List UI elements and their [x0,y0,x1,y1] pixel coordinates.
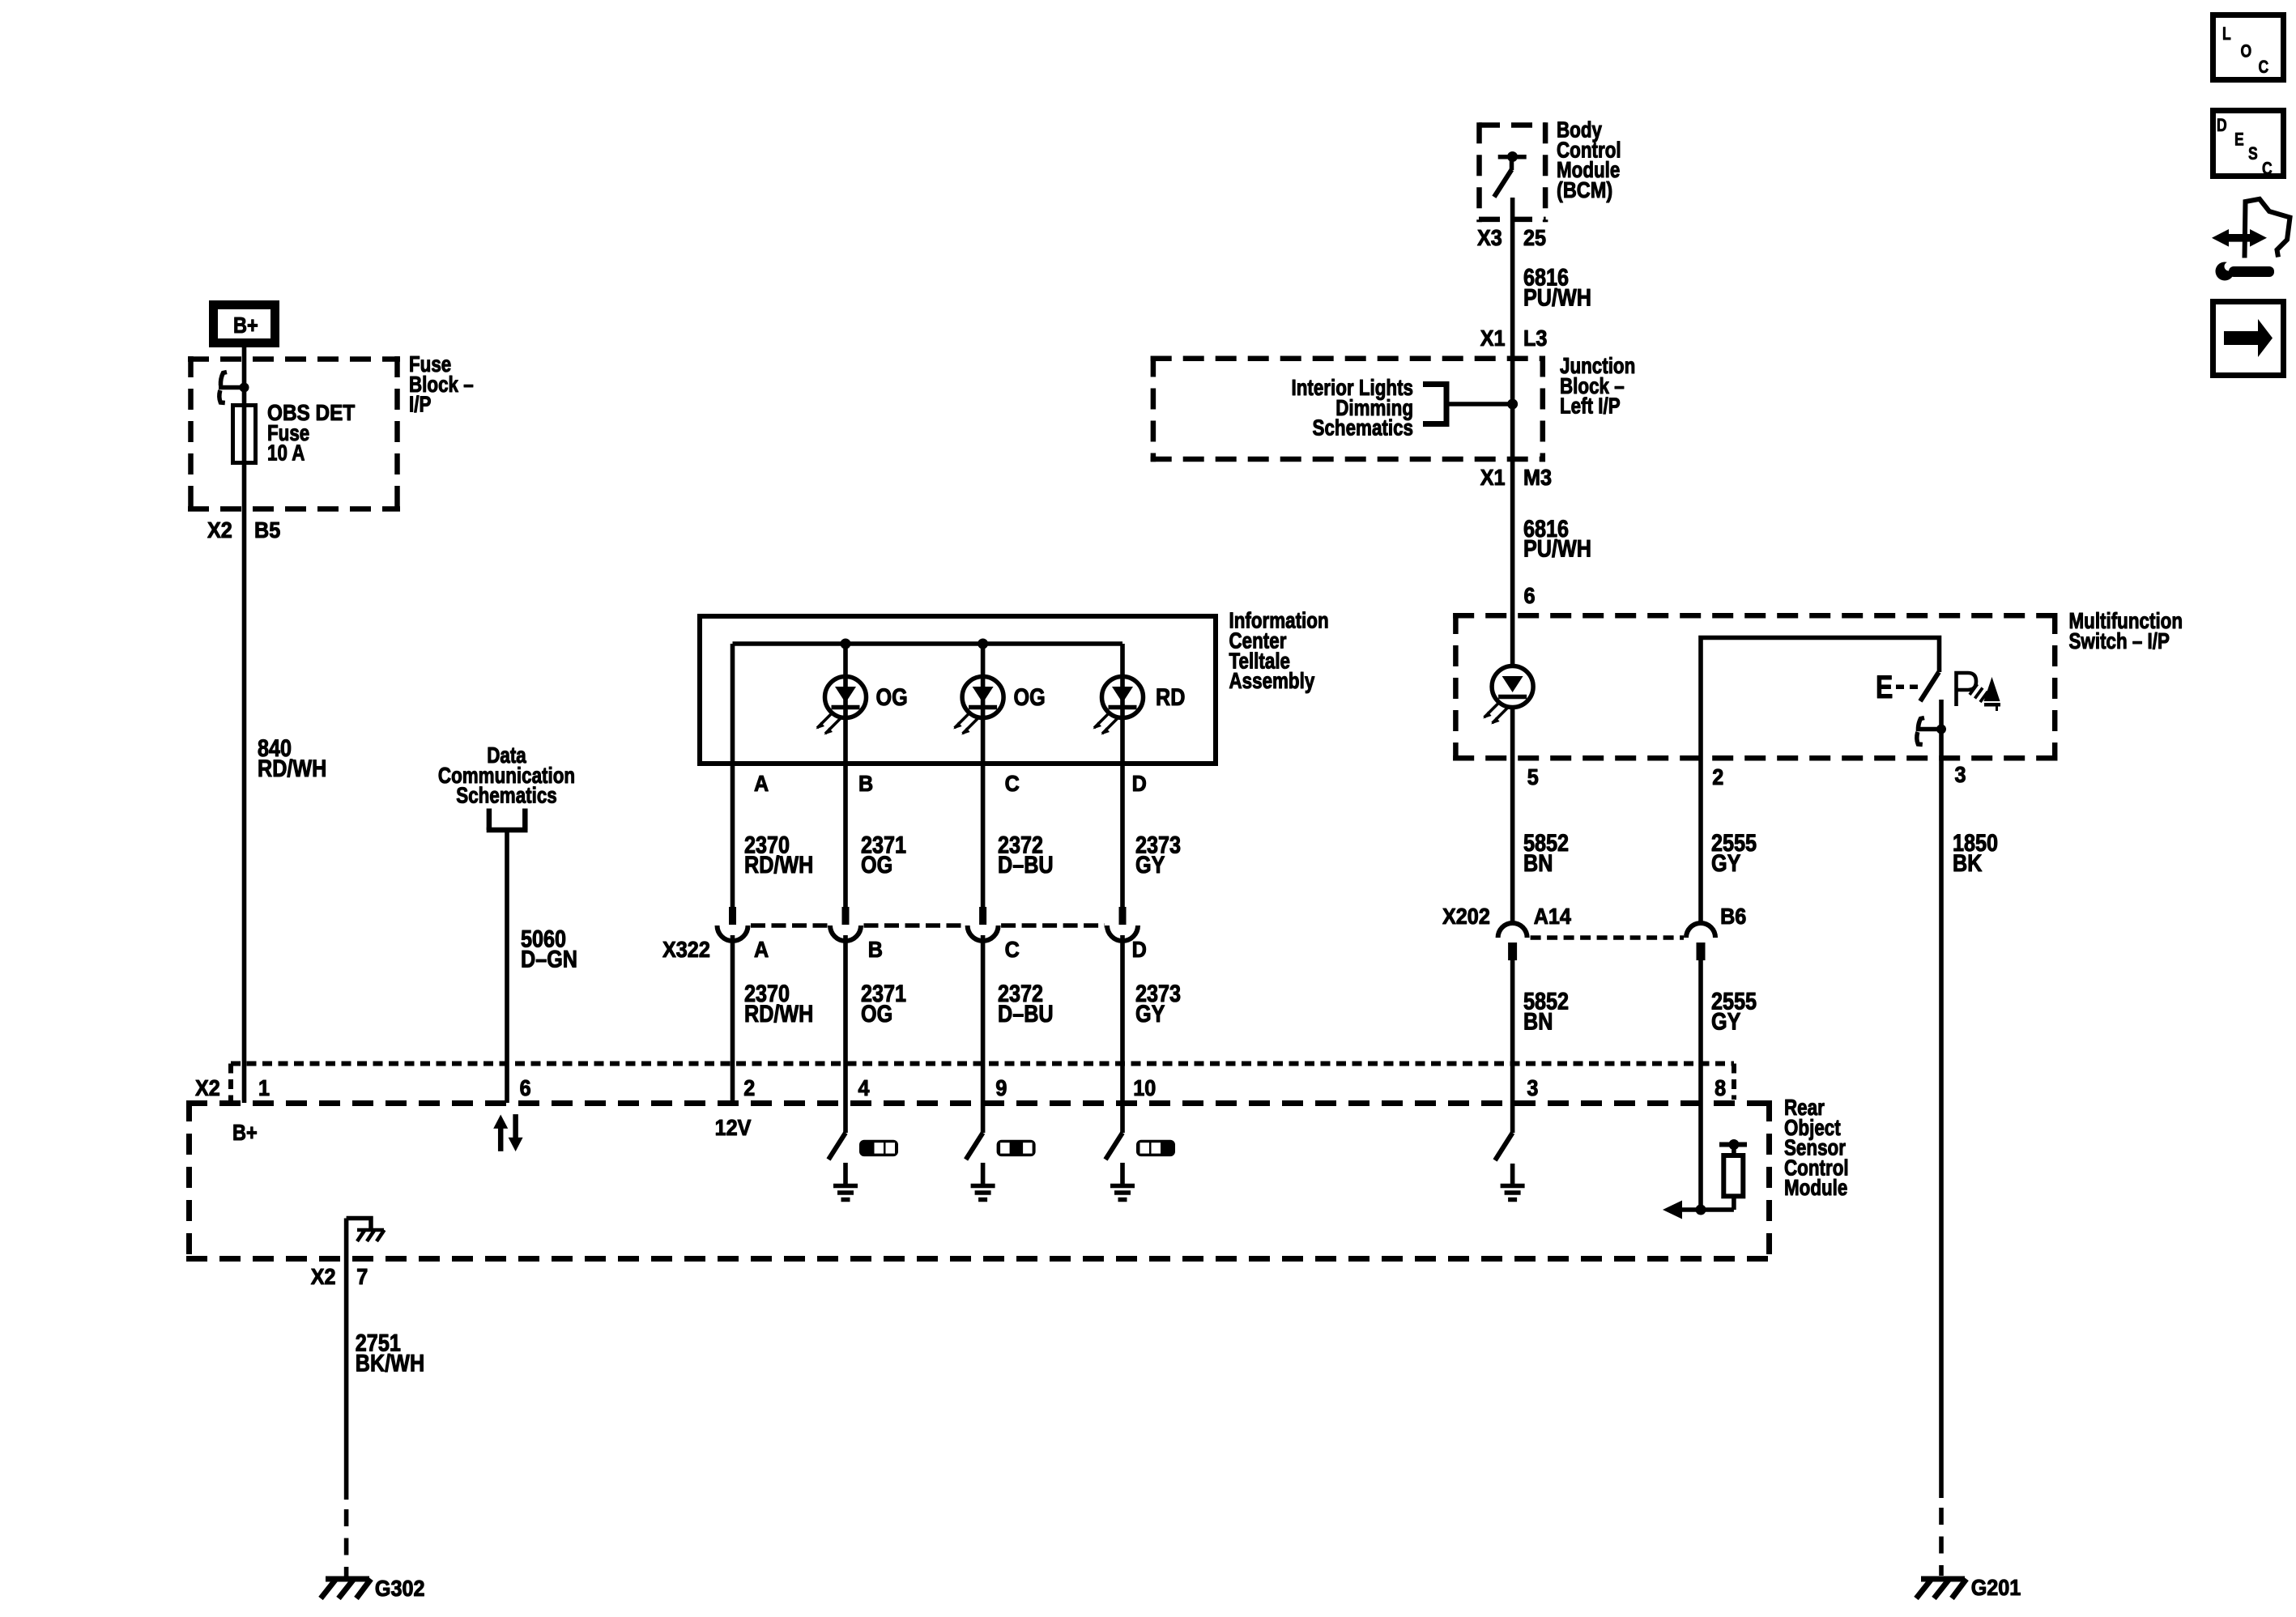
svg-text:C: C [2259,57,2269,77]
wire C to module [981,935,986,1103]
wire label 6816 PU/WH upper [1523,264,1591,311]
svg-text:S: S [2248,144,2258,164]
svg-text:RD: RD [1156,683,1185,711]
fuse OBS DET 10A [233,399,356,466]
svg-text:RD/WH: RD/WH [744,1000,813,1028]
svg-text:A: A [754,771,769,797]
wire 2751 BK/WH [311,1259,424,1577]
svg-text:X202: X202 [1442,904,1490,930]
interior lights dimming schematics reference [1291,376,1446,441]
wire 1850 BK from switch [1939,700,1944,1498]
svg-text:10: 10 [1133,1075,1156,1101]
fuse clip contact [219,372,249,403]
wire dimming tap [1446,402,1513,406]
BCM label [1557,117,1621,202]
output switch pin 3 to ground [1495,1103,1525,1200]
telltale internal bus [733,641,1123,646]
svg-text:Left I/P: Left I/P [1560,394,1621,419]
wire label 5852 BN lower [1523,987,1569,1034]
svg-text:GY: GY [1711,1007,1741,1035]
svg-text:A14: A14 [1534,904,1571,930]
LED indicator multifunction [1483,666,1533,725]
svg-text:Module: Module [1784,1176,1847,1201]
svg-text:PU/WH: PU/WH [1523,535,1591,563]
icon arrow box [2213,302,2284,376]
svg-text:E: E [2234,130,2244,150]
wire labels 2372 D-BU upper [998,831,1054,878]
svg-text:A: A [754,937,769,963]
svg-text:D–BU: D–BU [998,851,1054,879]
wire 840 RD/WH fuse to module [207,403,326,1103]
output switch pin 9 with lamp [966,1103,1036,1200]
svg-text:GY: GY [1135,851,1165,879]
connector X202 row [1442,904,1746,960]
svg-text:(BCM): (BCM) [1557,178,1612,202]
wire BCM out [1510,198,1515,356]
ground G201 [1916,1575,2021,1601]
junction block left I/P dashed box [1151,356,1545,462]
rear object sensor control module dashed box [186,1100,1772,1262]
wire labels 2370 RD/WH upper [744,831,813,878]
B+ battery terminal box [214,305,275,343]
icon LOC box top right [2213,15,2284,80]
svg-text:4: 4 [858,1075,870,1101]
wire LED to pin 5 [1510,708,1515,923]
fuse block I/P dashed box [188,356,400,512]
information center telltale assembly box [700,608,1329,764]
svg-text:Schematics: Schematics [456,783,556,808]
svg-text:BN: BN [1523,1007,1553,1035]
svg-text:X2: X2 [195,1075,220,1101]
BCM dashed box [1479,122,1546,222]
output switch pin 10 with lamp [1105,1103,1175,1200]
multifunction pin labels 5 2 3 [1527,762,1966,790]
svg-text:BK/WH: BK/WH [356,1349,424,1377]
svg-text:9: 9 [995,1075,1007,1101]
fuse block label [409,352,474,418]
wire labels 2370 RD/WH lower [744,980,813,1027]
svg-text:BK: BK [1953,849,1982,877]
LED indicator B OG [816,677,908,735]
wire BN to module [1510,960,1515,1103]
wire labels 2372 D-BU lower [998,980,1054,1027]
wire switch top feed [1701,638,1940,760]
svg-text:PU/WH: PU/WH [1523,283,1591,311]
svg-text:D–GN: D–GN [521,945,577,972]
wire 5060 D-GN [507,832,577,1103]
svg-text:2: 2 [1712,764,1723,790]
BCM internal switch [1494,151,1527,197]
svg-text:5: 5 [1527,764,1539,790]
multifunction switch label [2069,609,2183,654]
svg-text:B+: B+ [233,313,258,338]
svg-text:2: 2 [743,1075,755,1101]
svg-text:B: B [858,771,873,797]
connector X2 fine dashed line [231,1064,1734,1104]
svg-text:12V: 12V [715,1115,752,1141]
svg-text:Schematics: Schematics [1313,415,1413,440]
data arrows at pin 6 [493,1114,522,1151]
junction block pin labels X1 L3 [1480,326,1548,351]
node bus-B [841,639,851,649]
svg-text:D: D [2217,116,2227,135]
multifunction switch I/P dashed box [1453,613,2057,761]
wire A to module [731,935,735,1103]
svg-text:D–BU: D–BU [998,1000,1054,1028]
node bus-C [978,639,988,649]
svg-text:B5: B5 [254,517,280,543]
svg-text:25: 25 [1523,225,1546,251]
svg-text:B: B [868,937,883,963]
svg-text:D: D [1132,771,1147,797]
svg-text:L3: L3 [1523,326,1547,351]
svg-text:X3: X3 [1477,225,1502,251]
wire GY to module [1698,960,1703,1103]
park assist icon P with waves and cone [1957,673,2001,711]
wire A inside telltale [731,644,735,911]
BCM pin labels X3 25 [1477,225,1546,251]
svg-text:D: D [1132,937,1147,963]
module internal ground flag [347,1219,385,1260]
switch blade [1920,672,1939,701]
wire B to module [843,935,848,1103]
svg-text:G302: G302 [375,1576,425,1602]
svg-text:OG: OG [861,851,892,879]
svg-text:B6: B6 [1720,904,1746,930]
svg-text:C: C [2262,160,2273,179]
svg-text:G201: G201 [1971,1575,2021,1601]
wire labels 2373 GY lower [1135,980,1181,1027]
wire labels 2371 OG lower [861,980,906,1027]
svg-text:6: 6 [520,1075,531,1101]
node junction tap [1507,399,1518,410]
svg-text:OG: OG [861,1000,892,1028]
svg-text:OG: OG [1014,683,1046,711]
wire GY box to connector [1698,760,1703,924]
svg-text:X2: X2 [207,517,232,543]
svg-text:8: 8 [1715,1075,1726,1101]
wire 1850 dashed to ground [1939,1508,1944,1576]
switch E dashed actuator [1876,669,1921,705]
svg-text:M3: M3 [1523,465,1552,491]
output switch pin 4 with lamp [829,1103,898,1200]
svg-text:X2: X2 [311,1264,336,1290]
sensor resistor circuit pin 8 [1663,1103,1747,1219]
wire label 6816 PU/WH lower [1523,515,1591,562]
svg-text:X322: X322 [662,937,710,963]
switch clip contact on wire 3 [1916,718,1946,745]
module pin number row [195,1075,1726,1101]
svg-text:X1: X1 [1480,465,1506,491]
LED indicator D RD [1093,677,1186,735]
icon DESC box [2213,111,2284,180]
svg-text:3: 3 [1527,1075,1538,1101]
svg-text:RD/WH: RD/WH [744,851,813,879]
svg-text:I/P: I/P [409,392,431,417]
LED indicator C OG [953,677,1046,735]
svg-text:3: 3 [1955,762,1966,788]
svg-text:Switch – I/P: Switch – I/P [2069,629,2170,654]
svg-text:C: C [1005,937,1020,963]
wire label 5852 BN upper [1523,829,1569,877]
junction pin labels X1 M3 [1480,465,1552,491]
svg-text:GY: GY [1135,1000,1165,1028]
wire label 1850 BK [1953,829,1998,877]
svg-text:BN: BN [1523,849,1553,877]
telltale pin labels A B C D [754,771,1147,797]
svg-text:7: 7 [356,1264,368,1290]
wire junction block through [1510,356,1515,666]
svg-text:Assembly: Assembly [1229,669,1315,694]
wire label 2555 GY lower [1711,987,1757,1034]
svg-text:GY: GY [1711,849,1741,877]
wire D to module [1120,935,1125,1103]
svg-text:RD/WH: RD/WH [258,755,326,782]
wire B inside telltale [843,644,848,911]
svg-text:10 A: 10 A [267,440,305,466]
junction block label [1560,354,1635,419]
svg-text:O: O [2241,42,2252,62]
svg-text:C: C [1005,771,1020,797]
wire label 2555 GY upper [1711,829,1757,877]
wire labels 2373 GY upper [1135,831,1181,878]
svg-text:E: E [1876,669,1893,705]
svg-text:1: 1 [258,1075,270,1101]
icon hand with double arrow and wrench [2212,199,2290,281]
wire C inside telltale [981,644,986,911]
wire B+ to fuse [242,347,247,403]
svg-text:B+: B+ [232,1121,258,1145]
rear object sensor control module label [1784,1096,1849,1201]
connector X322 row [662,907,1147,962]
svg-text:OG: OG [876,683,908,711]
data communication schematics off-page bracket [438,743,575,830]
svg-text:X1: X1 [1480,326,1506,351]
wire D inside telltale [1120,644,1125,911]
svg-text:6: 6 [1524,583,1536,609]
ground G302 [321,1576,425,1602]
svg-text:L: L [2222,24,2231,44]
wire labels 2371 OG upper [861,831,906,878]
